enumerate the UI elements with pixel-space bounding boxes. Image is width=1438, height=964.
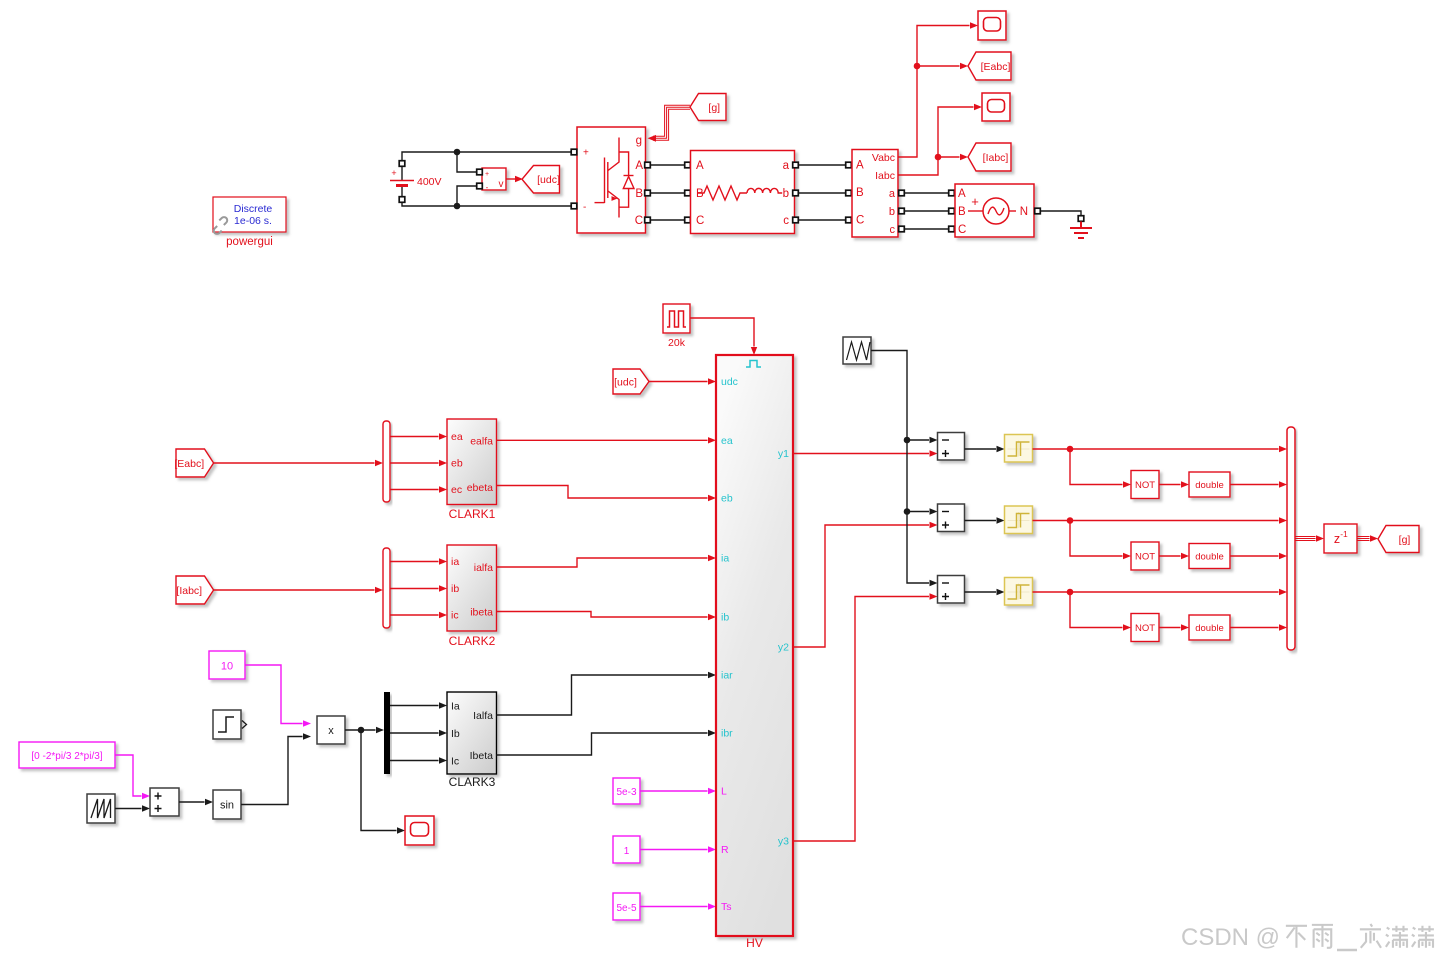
svg-text:ibeta: ibeta — [470, 607, 493, 619]
svg-text:Ic: Ic — [451, 756, 459, 768]
svg-text:A: A — [958, 188, 966, 200]
svg-text:CSDN @: CSDN @ — [1181, 924, 1280, 951]
svg-text:[Eabc]: [Eabc] — [981, 61, 1011, 73]
svg-text:z: z — [1334, 532, 1340, 546]
svg-text:5e-5: 5e-5 — [616, 903, 636, 914]
svg-text:CLARK2: CLARK2 — [449, 634, 496, 648]
svg-text:[udc]: [udc] — [537, 174, 560, 186]
svg-text:iar: iar — [721, 670, 733, 682]
svg-text:1e-06 s.: 1e-06 s. — [234, 215, 272, 227]
svg-text:+: + — [583, 148, 589, 159]
svg-text:Vabc: Vabc — [872, 152, 895, 164]
svg-text:Ialfa: Ialfa — [473, 710, 493, 722]
svg-text:x: x — [328, 725, 334, 737]
svg-text:B: B — [958, 206, 966, 218]
svg-text:eb: eb — [451, 458, 463, 470]
svg-text:double: double — [1195, 480, 1224, 491]
svg-text:NOT: NOT — [1135, 623, 1155, 634]
svg-text:R: R — [721, 844, 729, 856]
svg-text:ic: ic — [451, 610, 459, 622]
svg-text:udc: udc — [721, 376, 738, 388]
svg-text:+: + — [971, 194, 979, 209]
svg-text:ealfa: ealfa — [470, 436, 493, 448]
svg-text:CLARK3: CLARK3 — [449, 775, 496, 789]
svg-text:-: - — [486, 183, 489, 192]
svg-text:Ts: Ts — [721, 901, 732, 913]
svg-text:Ia: Ia — [451, 701, 460, 713]
svg-text:Ibeta: Ibeta — [470, 750, 494, 762]
svg-text:1: 1 — [624, 846, 630, 857]
svg-text:ibr: ibr — [721, 728, 733, 740]
svg-text:C: C — [856, 215, 864, 227]
svg-text:ec: ec — [451, 484, 462, 496]
svg-text:[Iabc]: [Iabc] — [176, 585, 202, 597]
svg-text:powergui: powergui — [226, 236, 273, 248]
svg-text:+: + — [485, 171, 489, 178]
svg-text:Ib: Ib — [451, 728, 460, 740]
svg-text:C: C — [958, 224, 966, 236]
svg-text:eb: eb — [721, 493, 733, 505]
svg-text:ialfa: ialfa — [474, 562, 493, 574]
svg-text:g: g — [636, 135, 642, 147]
svg-text:-: - — [583, 202, 586, 213]
svg-text:y3: y3 — [778, 836, 789, 848]
svg-text:NOT: NOT — [1135, 480, 1155, 491]
svg-text:y2: y2 — [778, 642, 789, 654]
svg-text:y1: y1 — [778, 448, 789, 460]
svg-text:ib: ib — [721, 612, 729, 624]
svg-text:N: N — [1020, 206, 1028, 218]
svg-text:ib: ib — [451, 583, 459, 595]
svg-text:A: A — [856, 160, 864, 172]
svg-text:HV: HV — [746, 936, 763, 950]
svg-text:5e-3: 5e-3 — [616, 787, 636, 798]
svg-text:C: C — [635, 215, 643, 227]
svg-text:L: L — [721, 786, 727, 798]
svg-text:double: double — [1195, 623, 1224, 634]
svg-text:[Iabc]: [Iabc] — [983, 152, 1009, 164]
svg-text:b: b — [783, 188, 789, 200]
svg-text:CLARK1: CLARK1 — [449, 507, 496, 521]
svg-text:[g]: [g] — [708, 102, 720, 114]
svg-text:Discrete: Discrete — [234, 203, 273, 215]
svg-text:a: a — [889, 188, 896, 200]
svg-text:NOT: NOT — [1135, 552, 1155, 563]
svg-text:B: B — [856, 187, 864, 199]
svg-text:400V: 400V — [417, 176, 442, 188]
svg-text:10: 10 — [221, 661, 233, 673]
svg-text:C: C — [696, 215, 704, 227]
svg-text:ia: ia — [721, 553, 729, 565]
svg-text:[0 -2*pi/3 2*pi/3]: [0 -2*pi/3 2*pi/3] — [31, 751, 102, 762]
svg-text:c: c — [890, 224, 896, 236]
svg-text:Iabc: Iabc — [875, 170, 895, 182]
svg-text:sin: sin — [220, 800, 234, 812]
svg-text:ea: ea — [451, 431, 463, 443]
svg-text:ia: ia — [451, 556, 459, 568]
svg-text:v: v — [499, 179, 504, 190]
svg-text:double: double — [1195, 552, 1224, 563]
svg-text:[udc]: [udc] — [614, 376, 637, 388]
svg-text:[g]: [g] — [1399, 534, 1411, 546]
svg-text:B: B — [635, 188, 643, 200]
svg-text:[Eabc]: [Eabc] — [174, 458, 204, 470]
svg-text:ebeta: ebeta — [467, 482, 493, 494]
svg-text:b: b — [889, 206, 895, 218]
svg-text:ea: ea — [721, 435, 733, 447]
svg-text:-1: -1 — [1340, 529, 1348, 539]
svg-text:A: A — [696, 160, 704, 172]
svg-text:20k: 20k — [668, 337, 686, 349]
svg-text:+: + — [391, 168, 396, 178]
svg-text:a: a — [783, 160, 790, 172]
svg-text:B: B — [696, 188, 704, 200]
svg-text:c: c — [783, 215, 789, 227]
svg-text:A: A — [635, 160, 643, 172]
